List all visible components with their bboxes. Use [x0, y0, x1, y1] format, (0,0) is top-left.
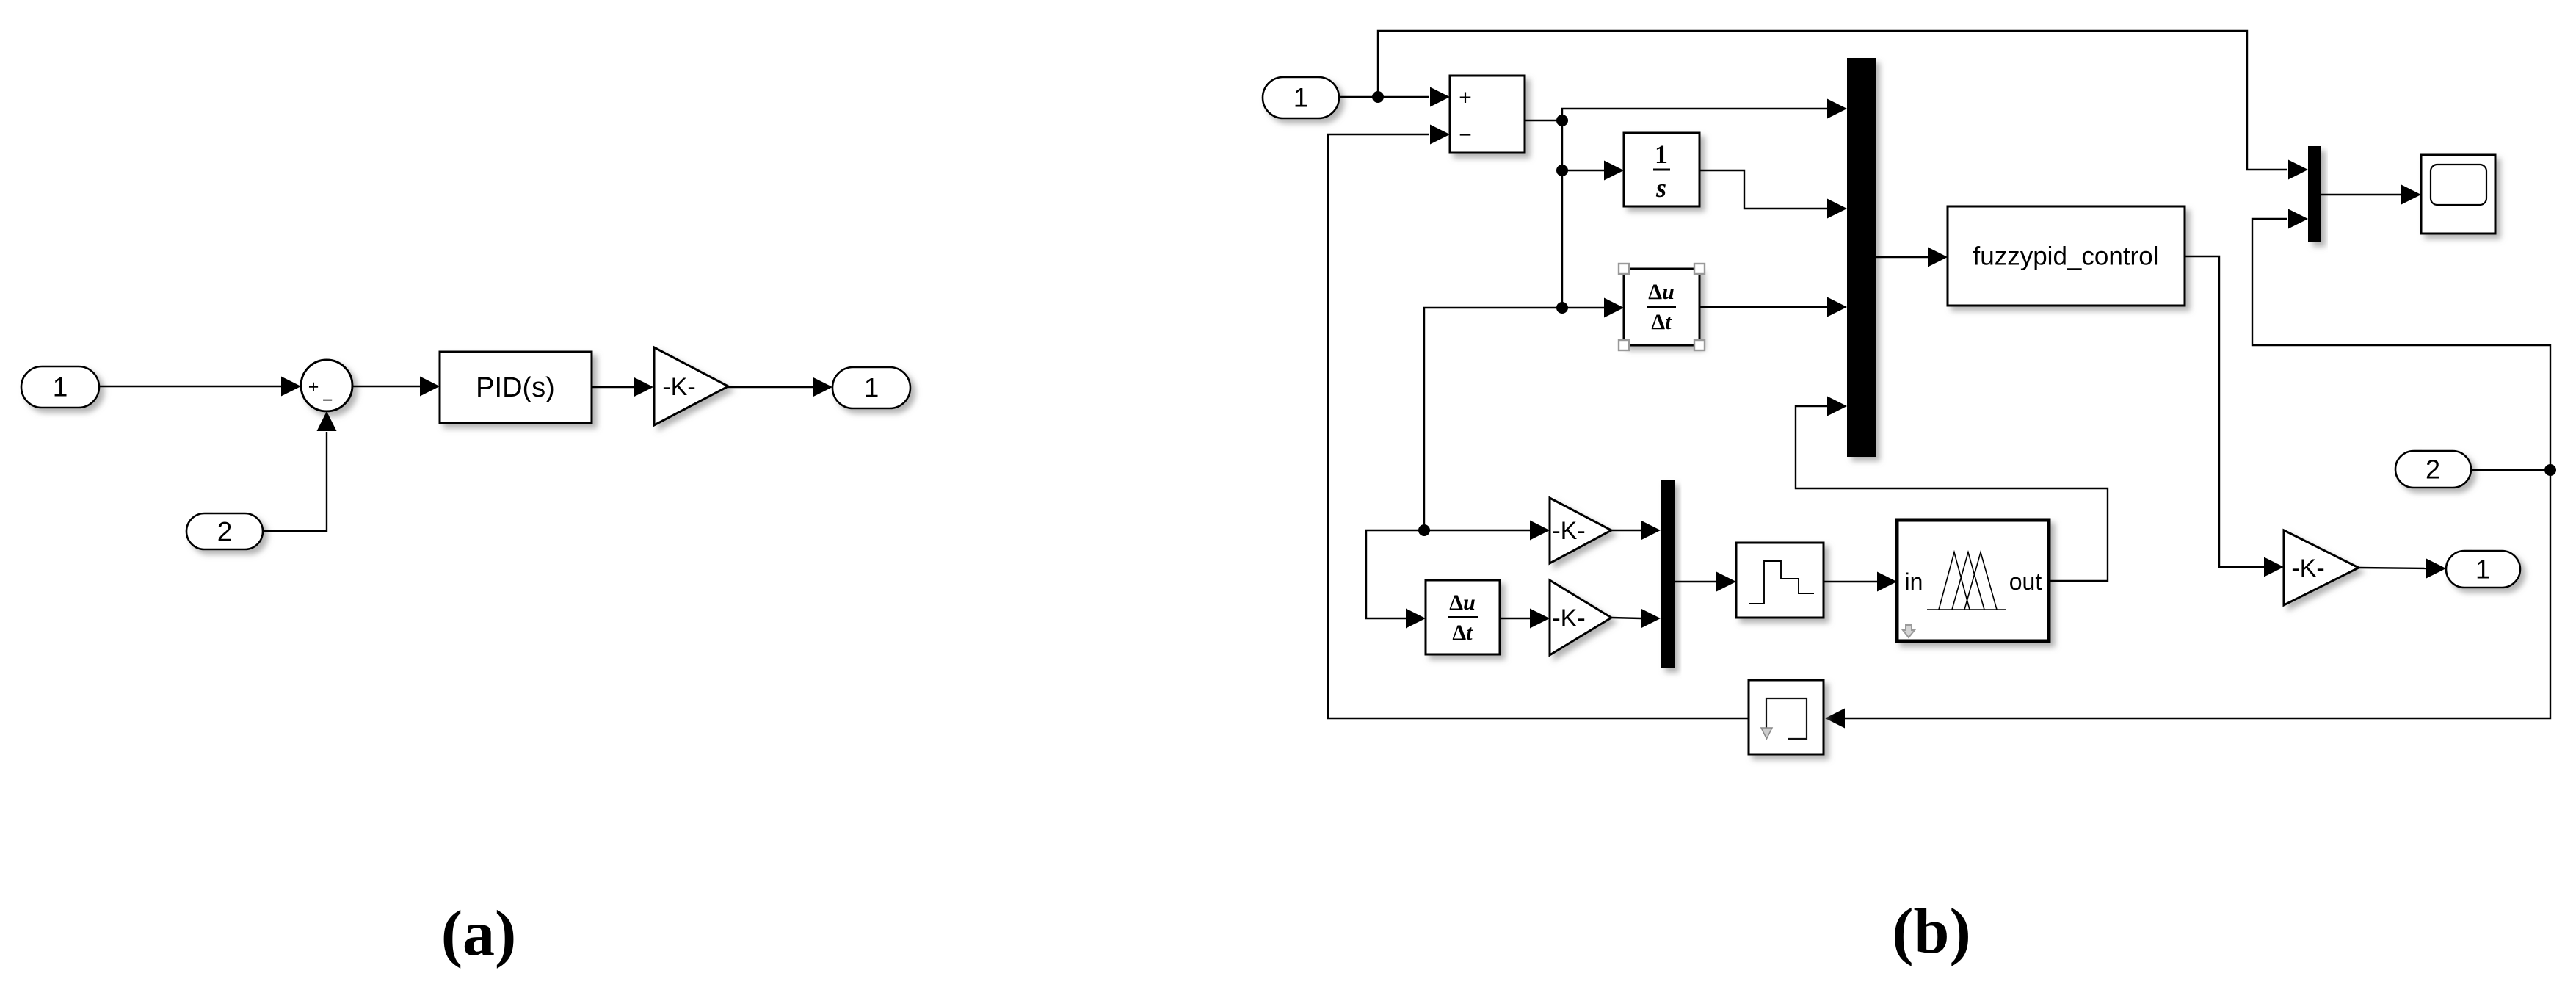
wire sum output	[1525, 115, 1568, 126]
integrator block 1/s	[1624, 133, 1699, 206]
wire down to derivative (bottom)	[1366, 530, 1426, 629]
wire gain right to outport 1 (b)	[2359, 559, 2446, 579]
svg-text:+: +	[1459, 86, 1472, 110]
wire mux1 to fuzzypid_control	[1876, 247, 1948, 267]
svg-text:Δu: Δu	[1648, 280, 1675, 304]
wire mux2 to scope	[2321, 185, 2421, 205]
wire to mux1 input1	[1562, 99, 1847, 121]
sum block (b)	[1450, 76, 1525, 153]
wire mux3 to quantizer	[1675, 572, 1736, 592]
svg-text:1: 1	[864, 373, 879, 403]
wire branch up and across top to mux2	[1378, 31, 2308, 180]
svg-text:in: in	[1905, 568, 1923, 595]
gain -K- (a)	[654, 347, 728, 425]
wire derivative to gain -K- bottom	[1500, 609, 1550, 629]
wire PID to gain	[592, 377, 653, 397]
wire integrator to mux1 input2	[1699, 170, 1847, 219]
outport 1 (a)	[832, 367, 910, 408]
wire to integrator	[1562, 161, 1624, 181]
wire quantizer to fuzzy	[1824, 572, 1897, 592]
svg-text:Δu: Δu	[1449, 590, 1476, 615]
sum junction circle (a)	[301, 360, 352, 411]
wire inport2 (b) down to memory	[1825, 470, 2550, 729]
svg-text:PID(s): PID(s)	[476, 372, 555, 403]
fuzzypid_control block	[1948, 206, 2185, 306]
junction node inport2 (b)	[2544, 464, 2556, 476]
derivative block du/dt (bottom)	[1426, 580, 1500, 654]
fuzzy logic controller block	[1897, 520, 2049, 641]
wire inport2(a) to sum bottom	[263, 411, 337, 531]
wire fuzzy out up to mux1 input4	[1796, 397, 2108, 582]
memory block (flipped)	[1749, 680, 1824, 754]
mux1 bar	[1847, 58, 1876, 457]
wire feedback from memory into sum minus	[1328, 125, 1749, 719]
wire branch left down to gains	[1424, 308, 1562, 530]
junction node at inport1 wire	[1372, 91, 1384, 103]
svg-text:-K-: -K-	[1552, 517, 1585, 545]
junction node gains branch	[1418, 524, 1430, 536]
svg-text:out: out	[2009, 568, 2042, 595]
gain -K- bottom (b)	[1550, 580, 1611, 655]
wire fuzzypid_control down to gain -K- right	[2185, 256, 2284, 577]
svg-text:-K-: -K-	[662, 373, 695, 401]
svg-text:(a): (a)	[441, 898, 517, 969]
PID(s) block	[440, 352, 592, 423]
svg-text:1: 1	[1655, 140, 1668, 169]
derivative block du/dt (top, selected)	[1619, 264, 1705, 350]
svg-text:+: +	[308, 377, 319, 397]
gain -K- top (b)	[1550, 498, 1611, 563]
outport 1 (b)	[2446, 551, 2520, 588]
svg-text:2: 2	[217, 517, 233, 547]
svg-text:fuzzypid_control: fuzzypid_control	[1973, 242, 2159, 271]
svg-text:1: 1	[53, 372, 68, 402]
quantizer block	[1736, 543, 1824, 618]
svg-text:s: s	[1655, 173, 1666, 203]
vertical branch wire	[1561, 120, 1563, 308]
svg-text:-K-: -K-	[1552, 604, 1585, 632]
wire to derivative (top)	[1562, 298, 1624, 318]
wire gain to outport (a)	[728, 377, 832, 397]
mux3 bar	[1661, 480, 1675, 668]
svg-text:Δt: Δt	[1452, 621, 1473, 645]
wire gain top to mux3	[1611, 521, 1661, 541]
wire to gain -K- top (b)	[1424, 521, 1550, 541]
svg-text:(b): (b)	[1892, 896, 1971, 967]
mux2 bar	[2308, 146, 2321, 242]
inport 2 (b)	[2395, 451, 2471, 488]
svg-text:-K-: -K-	[2291, 554, 2324, 582]
wire inport2 (b) to junction	[2471, 469, 2550, 471]
wire up to mux2 input2	[2252, 209, 2550, 471]
svg-text:Δt: Δt	[1651, 310, 1672, 334]
svg-text:2: 2	[2426, 455, 2440, 485]
wire derivative to mux1 input3	[1699, 297, 1847, 317]
svg-text:−: −	[1459, 123, 1472, 148]
gain -K- right (b)	[2284, 530, 2359, 605]
inport 1 (b)	[1263, 77, 1339, 118]
wire inport1(a) to sum	[99, 377, 301, 397]
svg-text:1: 1	[1294, 83, 1309, 113]
wire sum to PID	[352, 377, 440, 397]
wire inport1(b) to sum +	[1339, 87, 1450, 107]
svg-text:−: −	[322, 390, 333, 411]
wire gain bottom to mux3	[1611, 609, 1661, 629]
svg-text:1: 1	[2475, 554, 2490, 585]
inport 1 (a)	[21, 366, 99, 408]
node to integrator	[1556, 165, 1568, 176]
node to derivative	[1556, 302, 1568, 314]
inport 2 (a)	[186, 513, 263, 549]
scope block	[2421, 155, 2495, 234]
